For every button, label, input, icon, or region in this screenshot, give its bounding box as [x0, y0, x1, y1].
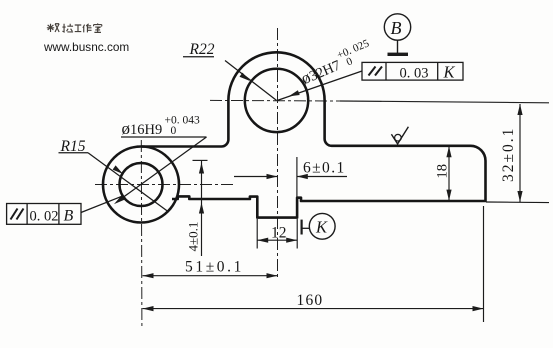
svg-text:12: 12 [271, 225, 287, 242]
dim 51+-0.1 [143, 275, 278, 277]
d32H7 label rotated [297, 37, 376, 88]
d32 leader to frame [278, 71, 363, 100]
svg-text:B: B [64, 208, 74, 225]
datum B symbol top [384, 14, 410, 40]
small boss circle R15 [103, 147, 179, 223]
R15 leader [88, 153, 168, 212]
svg-text:32±0.1: 32±0.1 [500, 127, 517, 182]
centerline vertical big bore [277, 28, 279, 278]
centerline horizontal small bore [95, 184, 233, 186]
作 [83, 24, 92, 33]
centerline vertical small bore / extension for 51,160 dims [140, 140, 143, 326]
svg-text:0. 02: 0. 02 [30, 209, 59, 225]
dim 160 [143, 308, 484, 310]
svg-text:B: B [391, 18, 402, 38]
part outline [141, 52, 486, 217]
logo chinese text (hand strokes) [47, 23, 102, 32]
svg-text:18: 18 [435, 164, 451, 179]
svg-text:0: 0 [171, 125, 177, 137]
svg-text:www.busnc.com: www.busnc.com [43, 40, 129, 54]
svg-text:51±0.1: 51±0.1 [185, 259, 244, 276]
svg-text:R22: R22 [189, 41, 215, 58]
svg-text:K: K [443, 63, 456, 82]
svg-text:160: 160 [297, 292, 324, 309]
big bore circle d32 [245, 69, 308, 132]
svg-text:0. 03: 0. 03 [400, 66, 429, 82]
svg-text:ø16H9: ø16H9 [122, 119, 163, 138]
室 [94, 23, 102, 32]
ext line bottom right [486, 201, 549, 204]
d16 leader [119, 137, 207, 200]
dim 12 [257, 239, 297, 241]
dim 6+-0.1 [234, 176, 278, 178]
ext line slot right wall up [296, 157, 298, 198]
svg-text:6±0.1: 6±0.1 [303, 160, 346, 177]
centerline horizontal big bore / extension for 32 dim [210, 99, 340, 102]
small bore circle d16 [120, 163, 163, 206]
svg-text:K: K [315, 218, 328, 237]
tolerance frame 0.03 K [362, 62, 463, 80]
datum K symbol [301, 220, 303, 235]
dim 4+-0.1 [201, 160, 203, 256]
数 [47, 24, 59, 32]
dim 18 [448, 146, 450, 201]
tolerance frame 0.02 B left [7, 204, 81, 225]
dim 32+-0.1 [519, 104, 521, 202]
leader from 0.02 frame [81, 196, 123, 213]
surface finish symbol [391, 127, 408, 144]
控 [62, 24, 73, 32]
R22 leader [225, 61, 277, 101]
svg-text:4±0.1: 4±0.1 [186, 222, 201, 252]
工 [75, 25, 82, 32]
